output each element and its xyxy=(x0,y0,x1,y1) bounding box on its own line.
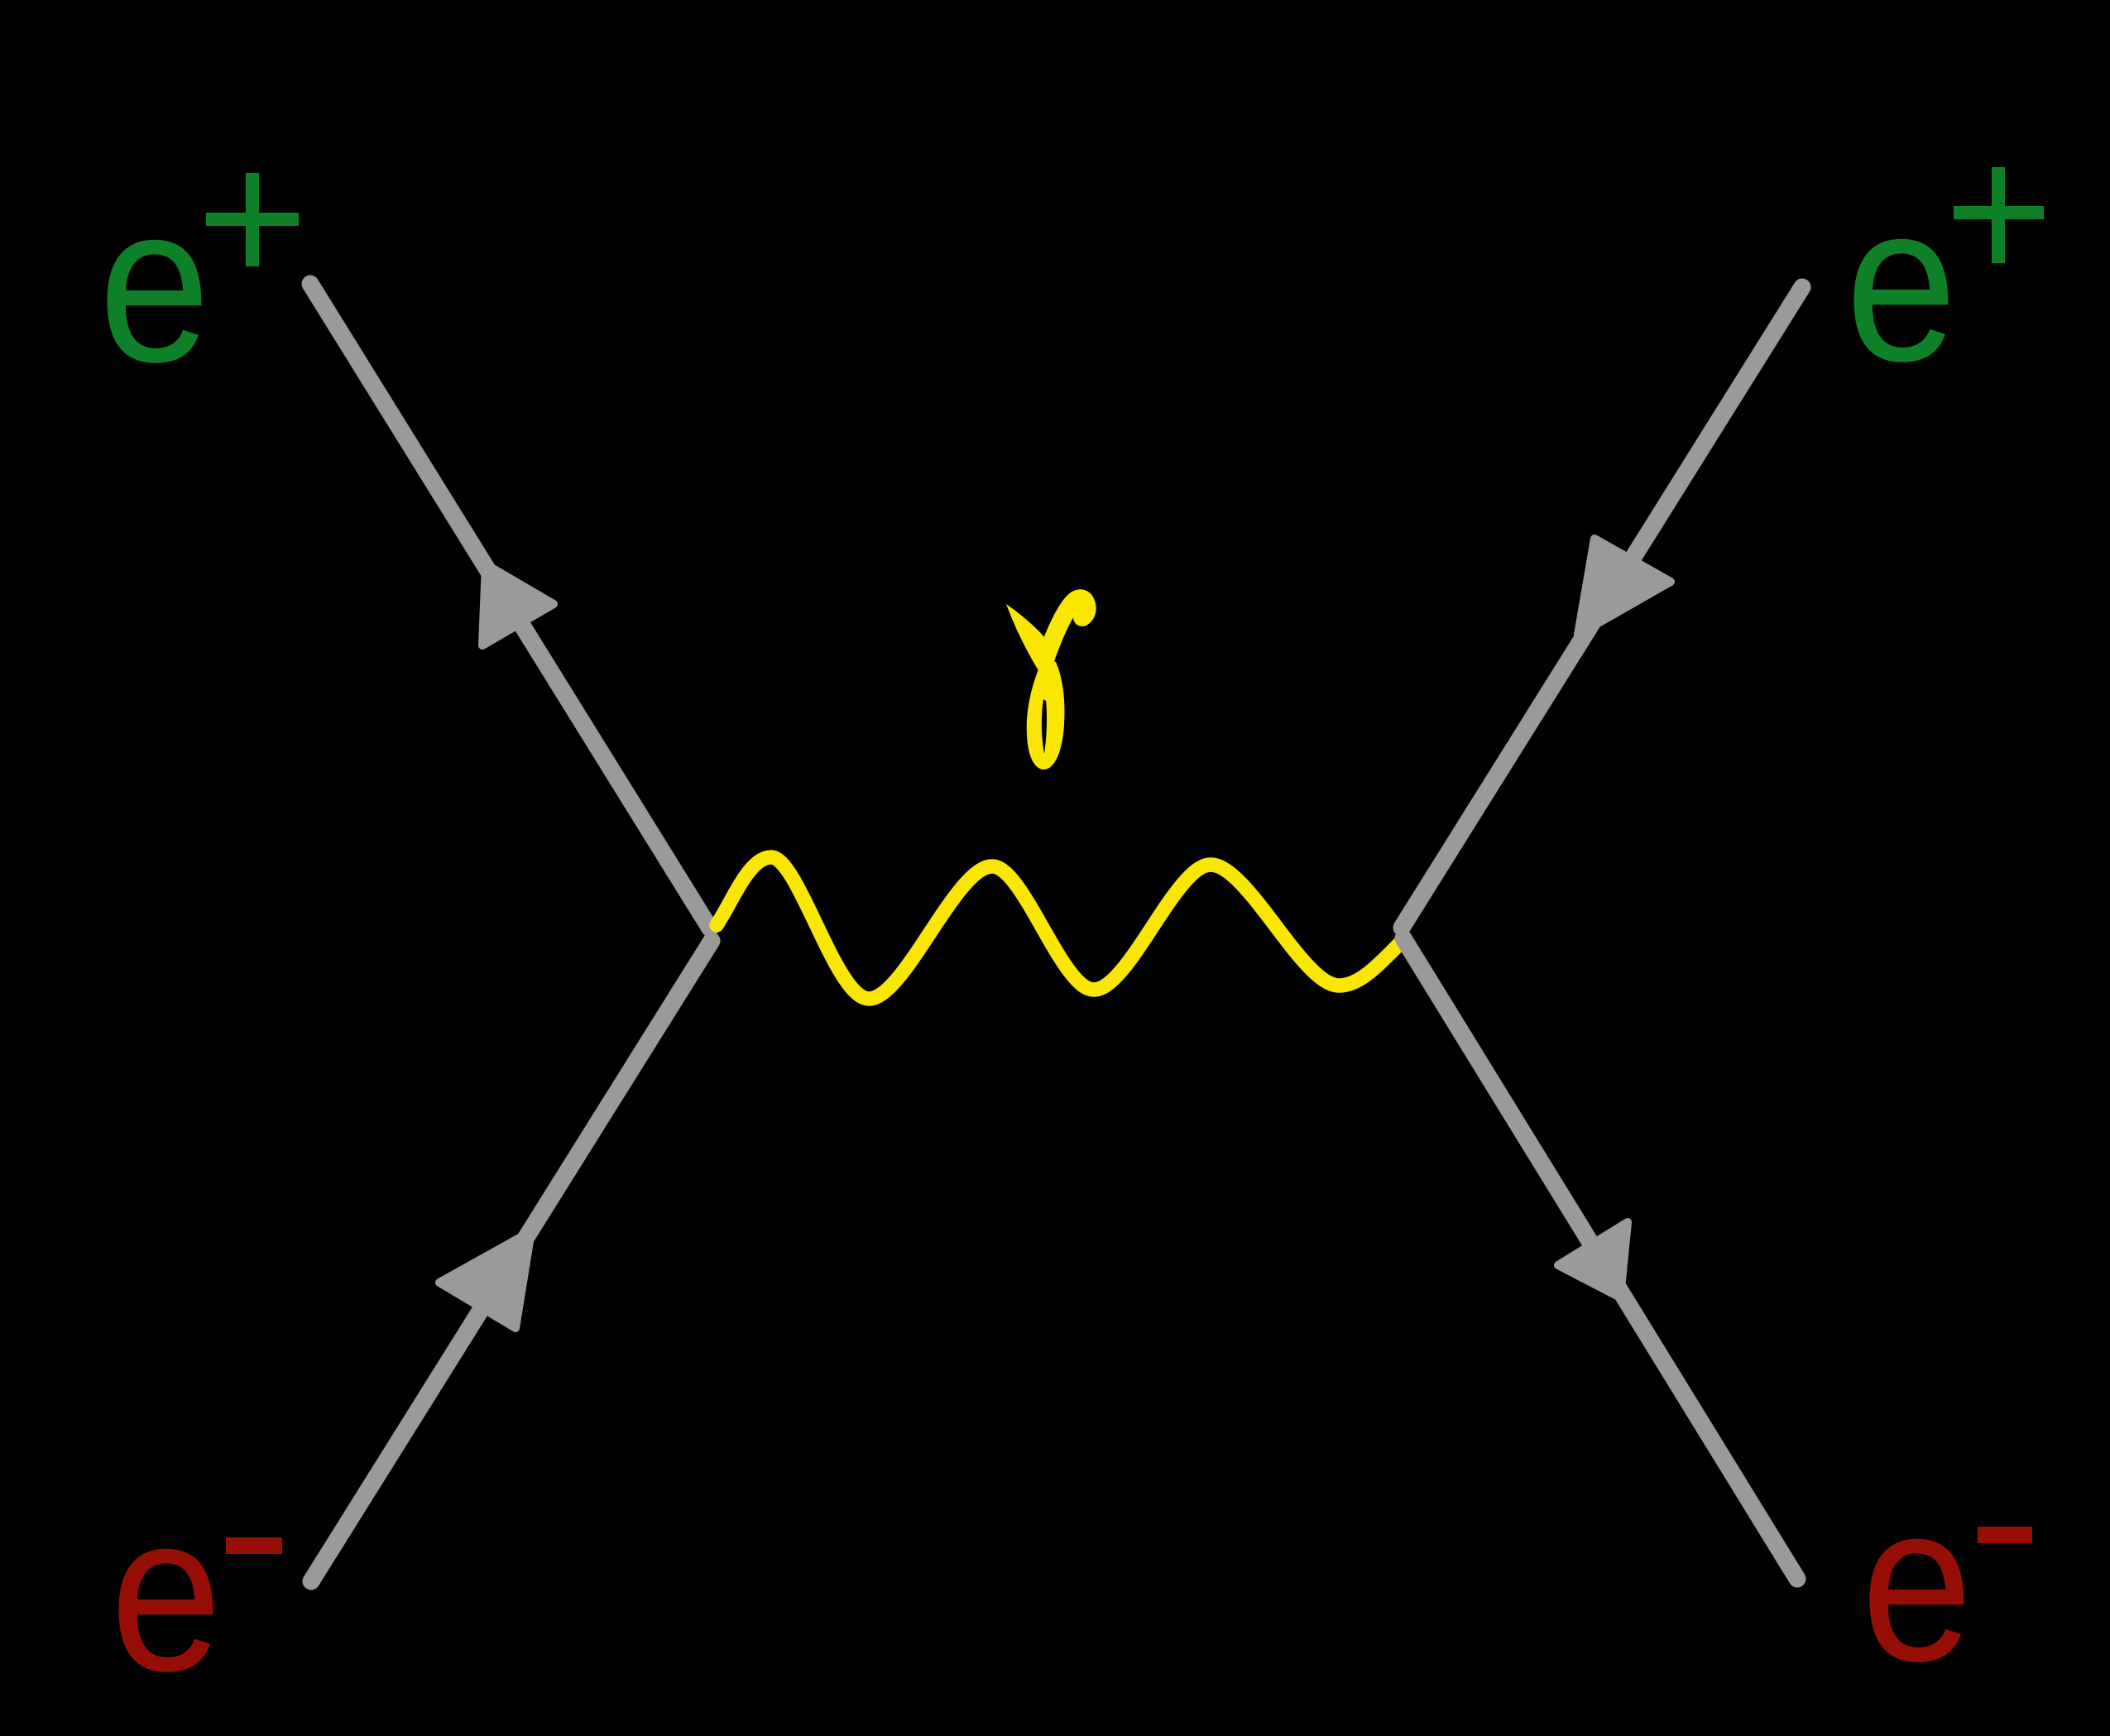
svg-text:e: e xyxy=(98,157,210,409)
svg-text:e: e xyxy=(1861,1456,1973,1708)
svg-text:e: e xyxy=(1845,156,1957,408)
svg-text:e: e xyxy=(110,1466,222,1718)
